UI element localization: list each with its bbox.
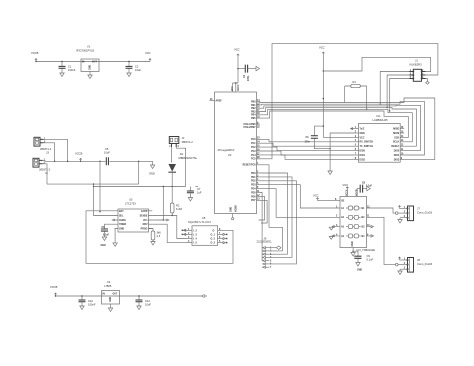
svg-text:10uF: 10uF xyxy=(104,151,110,155)
svg-text:GND: GND xyxy=(357,270,362,272)
svg-text:MISO: MISO xyxy=(393,129,399,131)
svg-text:280371-2: 280371-2 xyxy=(182,140,194,144)
svg-text:DIO2: DIO2 xyxy=(360,159,366,161)
svg-text:PB0: PB0 xyxy=(251,102,256,104)
svg-text:PC3: PC3 xyxy=(251,151,256,153)
svg-text:PB5: PB5 xyxy=(251,118,256,120)
svg-text:KUKB2R3: KUKB2R3 xyxy=(410,63,423,67)
svg-text:O_2: O_2 xyxy=(211,239,216,241)
svg-text:0.1uF: 0.1uF xyxy=(366,186,373,188)
svg-text:PC1: PC1 xyxy=(251,143,256,145)
svg-text:V1: V1 xyxy=(87,45,91,49)
svg-text:3k6: 3k6 xyxy=(157,231,162,235)
svg-text:10uF: 10uF xyxy=(145,303,151,307)
svg-text:GND: GND xyxy=(119,229,124,231)
svg-text:GND: GND xyxy=(90,65,92,70)
svg-text:AVCC: AVCC xyxy=(237,84,240,91)
svg-text:PD3: PD3 xyxy=(251,185,256,187)
svg-text:AGND: AGND xyxy=(235,205,238,212)
svg-text:C12: C12 xyxy=(145,299,150,303)
svg-text:U3: U3 xyxy=(129,198,133,202)
svg-text:IN: IN xyxy=(82,62,85,64)
svg-text:VCCB: VCCB xyxy=(75,152,83,156)
svg-text:DIO1: DIO1 xyxy=(360,155,366,157)
svg-text:C7: C7 xyxy=(197,187,201,191)
svg-text:VCC: VCC xyxy=(145,51,151,55)
svg-text:GND: GND xyxy=(149,172,155,176)
svg-text:0.1uF: 0.1uF xyxy=(103,234,110,236)
svg-text:PD4: PD4 xyxy=(251,188,256,191)
svg-text:VCCA: VCCA xyxy=(346,189,349,196)
svg-text:PD2: PD2 xyxy=(251,181,256,183)
svg-text:DRV: DRV xyxy=(143,224,148,226)
svg-text:RESET: RESET xyxy=(391,146,399,148)
svg-text:VCC: VCC xyxy=(234,48,240,52)
svg-text:22112056G1: 22112056G1 xyxy=(257,240,273,244)
svg-text:RX_SWITCH: RX_SWITCH xyxy=(360,142,374,144)
svg-text:GND: GND xyxy=(110,297,112,302)
svg-text:DIO3: DIO3 xyxy=(394,159,400,161)
svg-text:ATmega328-P: ATmega328-P xyxy=(218,148,235,152)
svg-text:GND: GND xyxy=(352,241,354,246)
svg-text:VCCB: VCCB xyxy=(50,285,58,289)
svg-text:PC2: PC2 xyxy=(251,147,256,149)
svg-text:AREF: AREF xyxy=(216,100,223,103)
svg-text:PC0: PC0 xyxy=(251,139,256,141)
svg-text:4.3: 4.3 xyxy=(157,234,161,238)
svg-text:U4: U4 xyxy=(107,280,111,284)
svg-text:6.2M: 6.2M xyxy=(176,207,182,211)
svg-text:PB1: PB1 xyxy=(251,105,256,107)
svg-text:0.1uF: 0.1uF xyxy=(367,258,374,262)
svg-text:100nF: 100nF xyxy=(88,303,96,307)
svg-text:Conn_01x03: Conn_01x03 xyxy=(417,262,433,266)
svg-text:VCC: VCC xyxy=(319,46,325,50)
svg-text:U2: U2 xyxy=(228,153,232,157)
svg-text:TIMER: TIMER xyxy=(119,224,127,226)
svg-text:Conn_01x03: Conn_01x03 xyxy=(417,211,433,215)
svg-text:VCC: VCC xyxy=(313,194,319,198)
svg-text:SEL: SEL xyxy=(119,216,124,218)
svg-text:1uF: 1uF xyxy=(197,191,202,195)
svg-text:IC1: IC1 xyxy=(377,114,382,118)
svg-text:O_3: O_3 xyxy=(211,243,216,245)
svg-text:C10: C10 xyxy=(88,299,93,303)
svg-text:PB3: PB3 xyxy=(251,111,256,113)
svg-text:100n: 100n xyxy=(248,75,250,81)
svg-text:GND: GND xyxy=(360,133,365,135)
svg-text:PC5: PC5 xyxy=(251,159,256,161)
svg-text:D1: D1 xyxy=(180,152,184,156)
svg-text:PC4: PC4 xyxy=(251,154,256,157)
svg-text:PD1: PD1 xyxy=(251,177,256,179)
svg-text:CHRG: CHRG xyxy=(119,220,126,222)
svg-text:DIO0: DIO0 xyxy=(360,151,366,153)
svg-text:C9: C9 xyxy=(367,254,371,258)
svg-text:OE: OE xyxy=(341,201,345,203)
svg-text:VC1: VC1 xyxy=(143,220,148,222)
svg-text:SQm3517+T1-UC3: SQm3517+T1-UC3 xyxy=(188,220,211,224)
svg-text:SCLK: SCLK xyxy=(393,142,400,144)
svg-text:IFX27001PV33: IFX27001PV33 xyxy=(76,49,94,53)
svg-text:C2: C2 xyxy=(135,65,139,69)
svg-text:R2: R2 xyxy=(176,204,180,208)
svg-text:TX_SWITCH: TX_SWITCH xyxy=(360,146,374,148)
svg-text:Tx/C: Tx/C xyxy=(360,129,365,131)
svg-text:PD7: PD7 xyxy=(251,200,256,202)
svg-text:PB4: PB4 xyxy=(251,114,256,117)
svg-text:GND: GND xyxy=(101,245,106,247)
svg-text:O_1: O_1 xyxy=(211,234,216,236)
svg-text:10uF: 10uF xyxy=(135,68,141,72)
svg-text:MOSI: MOSI xyxy=(393,133,399,135)
svg-text:DIO4: DIO4 xyxy=(394,154,400,157)
svg-text:IC3_TXB0104E: IC3_TXB0104E xyxy=(357,248,376,252)
svg-text:U5: U5 xyxy=(202,216,206,220)
svg-text:PD6: PD6 xyxy=(251,196,256,198)
svg-text:ACPR: ACPR xyxy=(141,210,148,213)
svg-text:VCCB: VCCB xyxy=(31,51,39,55)
svg-text:GND: GND xyxy=(231,207,233,212)
svg-text:DIO5: DIO5 xyxy=(394,151,400,153)
svg-text:XTAL2/PB7: XTAL2/PB7 xyxy=(243,126,256,129)
svg-text:C1: C1 xyxy=(68,65,72,69)
svg-text:IN: IN xyxy=(103,294,106,296)
svg-text:VCC: VCC xyxy=(343,183,349,187)
svg-text:PD5: PD5 xyxy=(251,192,256,194)
svg-text:L7805: L7805 xyxy=(104,284,112,288)
svg-text:XTAL1/PB6: XTAL1/PB6 xyxy=(243,123,256,126)
svg-text:C5: C5 xyxy=(105,147,109,151)
svg-text:OUT: OUT xyxy=(113,294,118,296)
svg-text:OUT: OUT xyxy=(92,62,97,64)
svg-text:BAT: BAT xyxy=(119,210,124,213)
svg-text:100nF: 100nF xyxy=(68,68,76,72)
svg-text:SCK: SCK xyxy=(394,137,399,139)
svg-text:SENSE: SENSE xyxy=(140,216,148,218)
svg-text:LAMBDA-R5: LAMBDA-R5 xyxy=(373,118,389,122)
svg-text:PROG: PROG xyxy=(141,229,148,231)
svg-text:VCC: VCC xyxy=(232,86,234,91)
svg-text:MBRM120LTSL: MBRM120LTSL xyxy=(179,156,198,160)
svg-text:LTC1733: LTC1733 xyxy=(125,202,136,206)
svg-text:R1: R1 xyxy=(353,80,357,84)
svg-text:PD0: PD0 xyxy=(251,173,256,175)
svg-text:RESET/PC6: RESET/PC6 xyxy=(243,165,257,167)
svg-text:O: O xyxy=(213,230,215,232)
svg-text:PB2: PB2 xyxy=(251,108,256,110)
svg-text:VCC: VCC xyxy=(360,137,365,139)
svg-text:VCCB: VCCB xyxy=(356,189,358,196)
